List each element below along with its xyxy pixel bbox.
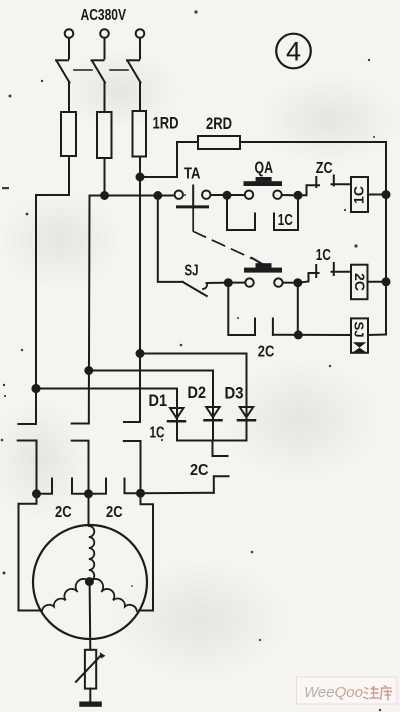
node brake button right xyxy=(294,279,301,286)
wire phase B down xyxy=(104,158,106,196)
button brake contacts xyxy=(245,278,282,286)
node motor A xyxy=(33,490,40,497)
node QA left xyxy=(224,192,231,199)
contact 2C brake A-B left xyxy=(37,479,53,494)
svg-text:QA: QA xyxy=(255,159,274,177)
wire L1 stub xyxy=(68,38,70,59)
contact 2C rectifier lower xyxy=(214,476,229,493)
svg-text:2C: 2C xyxy=(190,462,209,479)
node 2RD tap xyxy=(137,174,144,181)
svg-text:1C: 1C xyxy=(351,186,367,204)
terminal L1 xyxy=(65,29,74,38)
wire L2 stub xyxy=(104,38,106,59)
motor M circle xyxy=(33,525,147,639)
contact ZC xyxy=(298,176,351,196)
wire rheostat to terminal xyxy=(89,689,91,702)
contact 1C self-hold right hook xyxy=(274,198,298,230)
wire pole1 to fuse xyxy=(68,83,70,113)
wire TA to QA xyxy=(211,194,245,196)
wire tap to D3 xyxy=(140,354,247,421)
coil 1C xyxy=(351,177,368,212)
wire bottom row to rectifier contact xyxy=(141,492,214,494)
coil SJ xyxy=(351,318,368,352)
svg-text:1C: 1C xyxy=(278,212,293,229)
contact SJ blade xyxy=(183,282,207,296)
node bus row1 xyxy=(383,191,390,198)
switch QS pole 2 xyxy=(92,60,106,82)
wire pole2 to fuse xyxy=(104,83,106,113)
wire SJ to node xyxy=(207,282,229,284)
switch QS pole 1 xyxy=(56,60,70,82)
node D2 tap xyxy=(85,367,92,374)
hanzi wei xyxy=(363,686,380,699)
svg-text:2C: 2C xyxy=(55,504,72,521)
wire coil 2C to bus xyxy=(368,281,387,283)
contact 2C row2 left hook xyxy=(228,286,255,335)
svg-text:1C: 1C xyxy=(150,425,165,442)
svg-text:SJ: SJ xyxy=(185,263,199,280)
contact 1C self-hold left hook xyxy=(227,198,255,230)
svg-text:4: 4 xyxy=(286,37,301,67)
contact 2C rectifier upper xyxy=(213,441,228,457)
button TA contact xyxy=(175,186,211,231)
svg-text:TA: TA xyxy=(184,166,201,183)
svg-text:1C: 1C xyxy=(316,247,331,264)
svg-text:2RD: 2RD xyxy=(206,115,232,133)
coil SJ delay symbol xyxy=(353,342,367,352)
node D3 tap xyxy=(137,350,144,357)
wire pole3 to fuse xyxy=(139,83,141,112)
node motor center xyxy=(86,578,93,585)
wire coil SJ to bus xyxy=(368,334,386,337)
diode D2 xyxy=(205,407,222,420)
contact 2C brake A-B right xyxy=(72,479,89,494)
wire motor lead B xyxy=(88,494,90,525)
switch QS pole 3 xyxy=(127,60,141,82)
node phase B tap xyxy=(101,192,108,199)
wire motor lead A xyxy=(19,494,42,611)
node brake button left xyxy=(225,279,232,286)
button brake cap xyxy=(244,263,282,272)
linkage TA to brake button (dashed) xyxy=(194,232,253,259)
svg-text:AC380V: AC380V xyxy=(81,7,127,24)
wire phase C down xyxy=(139,157,141,423)
wire QA right to node xyxy=(282,194,298,196)
fuse 1RD c xyxy=(133,111,147,157)
terminal L3 xyxy=(136,29,145,38)
node motor B xyxy=(85,490,92,497)
node row3 xyxy=(295,331,302,338)
fuse 2RD xyxy=(198,136,240,149)
wire to 2RD xyxy=(140,142,198,177)
motor winding right xyxy=(89,579,136,611)
contact 1C main A xyxy=(18,424,37,494)
wire phase A down-jog xyxy=(36,156,69,424)
contact SJ fixed xyxy=(203,284,207,290)
wire 2RD to bus xyxy=(240,141,386,143)
terminal L2 xyxy=(100,29,109,38)
wire coil 1C to bus xyxy=(368,194,386,196)
button QA contacts xyxy=(245,191,282,199)
wire rotor down xyxy=(89,582,92,650)
coil 2C xyxy=(351,265,368,300)
node motor C xyxy=(137,490,144,497)
wire motor lead C xyxy=(139,493,153,610)
contact 2C row2 right hook xyxy=(272,319,274,335)
svg-text:1RD: 1RD xyxy=(153,114,179,132)
rheostat R xyxy=(85,650,96,689)
figure number 4 xyxy=(276,34,311,69)
terminal bar xyxy=(79,702,102,707)
contact 1C main C xyxy=(124,422,141,493)
button QA cap xyxy=(244,177,283,186)
wire brake button wires xyxy=(232,282,246,284)
svg-text:2C: 2C xyxy=(106,504,123,521)
wire cathode bus xyxy=(177,421,247,441)
contact 1C main B xyxy=(72,424,89,495)
node row2 feeder tap xyxy=(154,192,161,199)
svg-text:2C: 2C xyxy=(258,344,275,361)
motor winding left xyxy=(42,579,89,611)
motor winding top xyxy=(89,526,95,581)
switch QS linkage dashes xyxy=(74,69,128,71)
wire tap to D1 xyxy=(36,389,177,422)
contact 2C brake B-C left xyxy=(89,479,107,494)
node D1 tap xyxy=(32,385,39,392)
diode D1 xyxy=(168,408,185,421)
svg-text:ZC: ZC xyxy=(316,160,333,177)
wire control feed horizontal xyxy=(90,195,175,197)
svg-text:D3: D3 xyxy=(225,385,244,403)
svg-text:D1: D1 xyxy=(149,392,168,410)
node bus row2 xyxy=(383,278,390,285)
contact 1C row2 xyxy=(298,263,351,283)
hanzi ku xyxy=(381,686,393,701)
svg-text:WeeQoo: WeeQoo xyxy=(304,684,363,701)
wire phase B vertical xyxy=(88,196,91,424)
node QA right xyxy=(295,192,302,199)
wire right bus xyxy=(385,142,387,335)
wire tap to D2 xyxy=(89,371,213,421)
wire row3 horizontal xyxy=(273,334,351,336)
fuse 1RD b xyxy=(97,112,112,158)
svg-text:D2: D2 xyxy=(188,384,207,402)
contact 2C brake B-C right xyxy=(125,479,141,494)
watermark xyxy=(297,677,398,704)
svg-text:SJ: SJ xyxy=(352,322,367,338)
fuse 1RD a xyxy=(61,112,76,156)
wire L3 stub xyxy=(139,38,141,59)
wire row2 feeder xyxy=(158,196,183,282)
svg-text:2C: 2C xyxy=(352,273,368,291)
diode D3 xyxy=(238,407,255,420)
wire brake node down xyxy=(297,286,299,335)
